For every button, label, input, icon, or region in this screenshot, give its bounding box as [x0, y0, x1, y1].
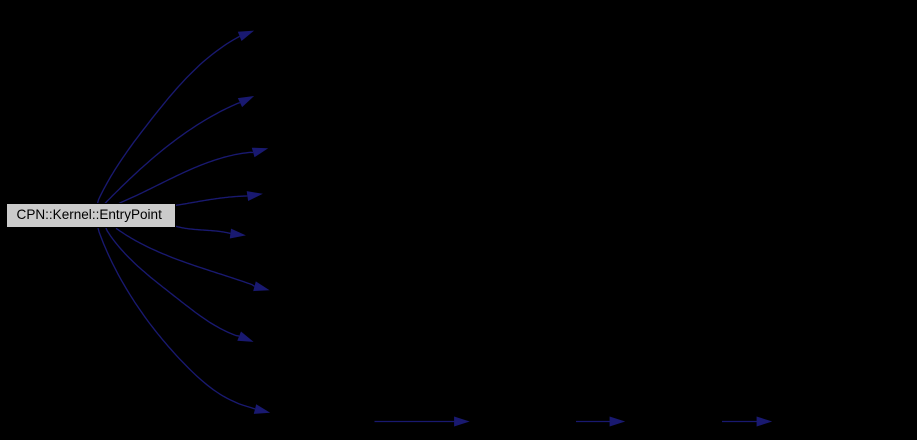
bottom edge A wire: [375, 417, 470, 427]
edge 5 wire: [176, 226, 246, 238]
bottom edge B wire: [576, 417, 625, 427]
node CPN::Kernel::EntryPoint: [7, 204, 176, 228]
edge 4 wire: [175, 191, 263, 205]
edge 1 wire: [98, 31, 255, 204]
bottom edge C wire: [722, 417, 772, 427]
edge 2 wire: [105, 96, 254, 204]
edge 8 wire: [98, 228, 270, 414]
edge 6 wire: [116, 228, 270, 291]
edge 3 wire: [119, 148, 268, 204]
edge 7 wire: [106, 228, 254, 342]
svg-text:CPN::Kernel::EntryPoint: CPN::Kernel::EntryPoint: [17, 207, 163, 222]
